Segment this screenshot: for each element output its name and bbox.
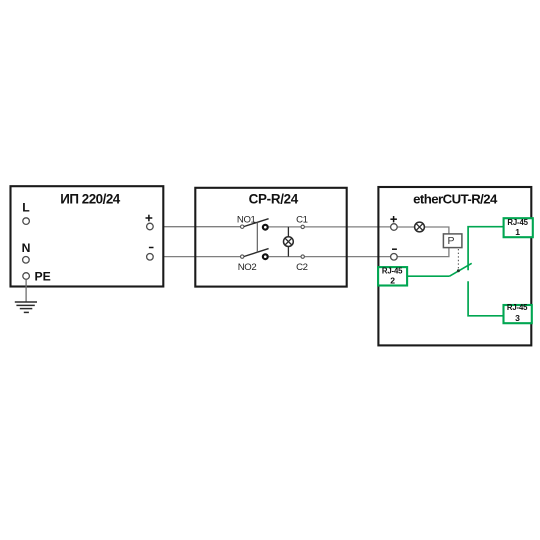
svg-text:etherCUT-R/24: etherCUT-R/24 <box>413 192 498 207</box>
svg-text:RJ-45: RJ-45 <box>507 218 528 227</box>
svg-text:C2: C2 <box>296 262 308 273</box>
svg-text:3: 3 <box>515 313 520 323</box>
svg-text:C1: C1 <box>296 214 308 225</box>
svg-text:1: 1 <box>515 227 520 237</box>
svg-text:RJ-45: RJ-45 <box>382 267 403 276</box>
svg-text:PE: PE <box>35 270 51 284</box>
svg-text:2: 2 <box>390 276 395 286</box>
svg-text:ИП 220/24: ИП 220/24 <box>60 192 120 207</box>
svg-text:RJ-45: RJ-45 <box>507 303 528 312</box>
svg-text:NO2: NO2 <box>238 262 257 273</box>
svg-text:P: P <box>447 235 454 247</box>
svg-text:L: L <box>22 201 30 215</box>
svg-text:CP-R/24: CP-R/24 <box>249 192 299 207</box>
svg-text:N: N <box>22 241 31 255</box>
